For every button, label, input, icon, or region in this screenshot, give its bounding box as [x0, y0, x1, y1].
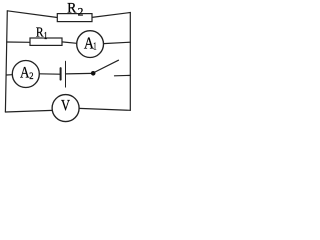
svg-text:V: V	[61, 97, 71, 115]
svg-text:1: 1	[93, 40, 96, 52]
svg-text:R: R	[67, 0, 77, 17]
svg-text:2: 2	[29, 71, 34, 82]
svg-text:2: 2	[78, 7, 84, 19]
svg-text:1: 1	[44, 30, 47, 42]
svg-text:R: R	[36, 25, 44, 40]
